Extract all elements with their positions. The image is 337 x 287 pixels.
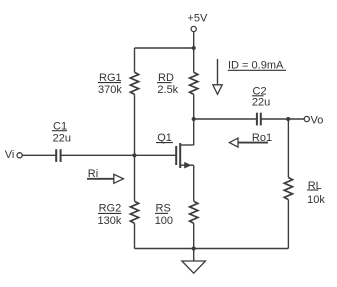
svg-text:22u: 22u (53, 132, 71, 144)
svg-text:ID = 0.9mA: ID = 0.9mA (228, 59, 284, 71)
wire RL bottom lead (287, 200, 289, 249)
label RL (307, 180, 322, 192)
ground (182, 249, 206, 274)
wire RG1 top lead (134, 48, 136, 72)
svg-text:370k: 370k (98, 84, 122, 96)
wire drain vertical (193, 94, 195, 145)
svg-text:2.5k: 2.5k (157, 84, 178, 96)
current arrow ID (213, 59, 222, 94)
junction drain node (192, 117, 196, 121)
wire top rail (135, 47, 194, 49)
svg-text:RG2: RG2 (99, 203, 122, 215)
capacitor C2 (257, 113, 261, 126)
wire RD top lead (193, 48, 195, 72)
svg-text:+5V: +5V (188, 13, 209, 25)
wire RS bottom lead (193, 223, 195, 248)
svg-text:10k: 10k (307, 194, 325, 206)
label C1 (52, 121, 67, 133)
svg-text:22u: 22u (252, 96, 270, 108)
arrow Ro1 (229, 132, 272, 147)
transistor Q1 (176, 143, 194, 169)
svg-text:Vo: Vo (311, 115, 324, 127)
wire Vi lead (22, 154, 56, 156)
terminal Vi (5, 149, 23, 161)
wire source vertical (193, 165, 195, 201)
junction supply node (192, 46, 196, 50)
junction output node (286, 117, 290, 121)
terminal Vo (304, 115, 323, 127)
label RS (155, 203, 171, 215)
resistor RG2 (130, 201, 138, 223)
label C2 (252, 85, 267, 97)
svg-text:Vi: Vi (5, 149, 15, 161)
resistor RL (284, 178, 292, 200)
resistor RG1 (130, 72, 138, 94)
arrow Ri (87, 168, 123, 183)
wire left vertical mid (134, 94, 136, 201)
wire output left (194, 118, 257, 120)
label RG2 (98, 203, 121, 215)
junction gate node (132, 153, 136, 157)
+5V supply terminal (188, 13, 209, 32)
wire bottom rail (135, 248, 289, 250)
svg-text:130k: 130k (98, 215, 122, 227)
svg-text:100: 100 (155, 215, 173, 227)
label ID = 0.9mA (228, 59, 286, 71)
label Q1 (156, 132, 173, 144)
capacitor C1 (56, 149, 60, 162)
wire output right (261, 118, 304, 120)
wire supply drop (193, 32, 195, 48)
junction ground node (192, 246, 196, 250)
svg-text:RS: RS (156, 203, 171, 215)
label RD (157, 72, 174, 84)
wire RL top lead (287, 119, 289, 178)
resistor RD (190, 72, 198, 94)
wire RG2 bottom lead (134, 223, 136, 248)
resistor RS (190, 201, 198, 223)
label RG1 (98, 72, 122, 84)
wire gate wire (61, 154, 177, 156)
